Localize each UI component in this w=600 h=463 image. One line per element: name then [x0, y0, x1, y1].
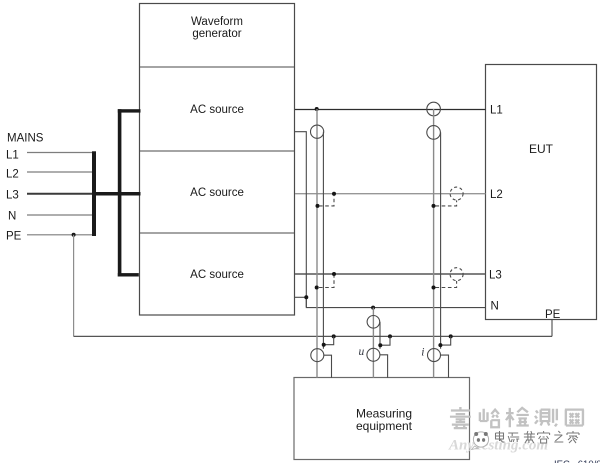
bus stub to AC source 3 [118, 273, 139, 276]
node PE tap 3 [449, 334, 453, 338]
svg-text:PE: PE [6, 231, 22, 243]
svg-text:MAINS: MAINS [7, 133, 44, 145]
wire N stub from AC source 3 [295, 296, 307, 298]
wire N [306, 297, 485, 308]
svg-text:PE: PE [545, 309, 561, 321]
svg-text:L3: L3 [6, 190, 19, 202]
wire mains PE [27, 234, 94, 236]
wire right secondary [440, 132, 442, 348]
wire u measurement lead (middle) [372, 308, 374, 378]
wire L3 [295, 273, 486, 275]
svg-text:AnyTesting.com: AnyTesting.com [448, 438, 548, 454]
wire mains L2 [27, 171, 94, 173]
dashed link i-lead to L2 transducer [436, 200, 457, 206]
transducer circle middle top [367, 316, 380, 329]
node L2 line tap [332, 192, 336, 196]
transducer circle middle bottom [367, 348, 380, 361]
svg-text:u: u [359, 346, 365, 358]
three-phase bus bar [118, 109, 122, 276]
transducer circle left bottom [311, 349, 324, 362]
divider waveform/AC1 [140, 66, 295, 68]
svg-text:L1: L1 [490, 105, 503, 117]
wire mains N [27, 214, 94, 216]
svg-text:generator: generator [192, 28, 241, 40]
wire L2 [295, 193, 486, 195]
node u-lead L2 junction [316, 204, 320, 208]
transducer circle left top [311, 125, 324, 138]
divider AC2/AC3 [140, 232, 295, 234]
svg-text:N: N [491, 301, 499, 313]
transducer circle right top [427, 126, 441, 140]
bus stub to AC source 1 [118, 109, 141, 112]
wire PE hook 2 [381, 336, 390, 345]
wire PE hook 3 [441, 336, 451, 345]
wire PE [74, 335, 552, 337]
node i-lead L2 junction [432, 204, 436, 208]
node L1 tap [315, 107, 319, 111]
EUT box [486, 65, 597, 320]
svg-text:Waveform: Waveform [191, 16, 243, 28]
wire middle return to measuring equipment [380, 355, 388, 378]
wire mains L1 [27, 152, 94, 154]
dashed link u-lead to L2 [319, 196, 334, 206]
node secondary-PE junction 3 [438, 343, 442, 347]
wire PE drop [73, 235, 75, 337]
wire PE riser to EUT [551, 320, 553, 337]
svg-text:AC source: AC source [190, 104, 244, 116]
wire right return to measuring equipment [441, 355, 449, 378]
node secondary-PE junction 1 [322, 343, 326, 347]
wire mains L3 [27, 193, 94, 195]
mains collector bar [92, 151, 96, 236]
node N tap [371, 306, 375, 310]
bus stub to AC source 2 [92, 192, 141, 196]
node PE tap 1 [332, 334, 336, 338]
svg-text:EUT: EUT [529, 142, 554, 156]
dashed link u-lead to L3 [319, 276, 334, 288]
wire u measurement lead (left) [316, 109, 318, 378]
node secondary-PE junction 2 [378, 343, 382, 347]
wire left return to measuring equipment [324, 355, 332, 378]
svg-text:L1: L1 [6, 150, 19, 162]
optional transducer on L2 (dashed) [450, 187, 463, 200]
svg-text:equipment: equipment [356, 419, 413, 433]
node PE tap 2 [388, 334, 392, 338]
wire i measurement lead (right) [433, 109, 435, 378]
generator/source column box [140, 4, 295, 316]
svg-text:i: i [421, 347, 424, 359]
measuring equipment box [294, 378, 470, 460]
svg-text:L3: L3 [489, 270, 502, 282]
watermark logo icon [472, 432, 489, 450]
dashed link i-lead to L3 transducer [436, 281, 457, 288]
optional transducer on L3 (dashed) [450, 268, 463, 281]
node L3 line tap [332, 272, 336, 276]
svg-text:L2: L2 [490, 189, 503, 201]
wire L1 [295, 109, 486, 111]
svg-text:AC source: AC source [190, 187, 244, 199]
svg-text:IEC 610/02: IEC 610/02 [554, 459, 600, 463]
svg-text:N: N [8, 211, 16, 223]
node N junction [304, 295, 308, 299]
current transducer on L1 [427, 102, 441, 116]
node u-lead L3 junction [315, 286, 319, 290]
divider AC1/AC2 [140, 150, 295, 152]
wire PE hook 1 [324, 336, 334, 344]
svg-text:L2: L2 [6, 169, 19, 181]
transducer circle right bottom [428, 349, 441, 362]
node PE junction [72, 233, 76, 237]
wire middle secondary [379, 322, 381, 349]
watermark big CJK jiayu jiance wang [450, 407, 584, 428]
wire u-return from AC source 1 [295, 132, 307, 307]
svg-text:AC source: AC source [190, 269, 244, 281]
node i-lead L3 junction [432, 286, 436, 290]
wire left secondary [322, 132, 324, 349]
watermark small CJK dianci jianrong zhi jia [496, 431, 580, 443]
